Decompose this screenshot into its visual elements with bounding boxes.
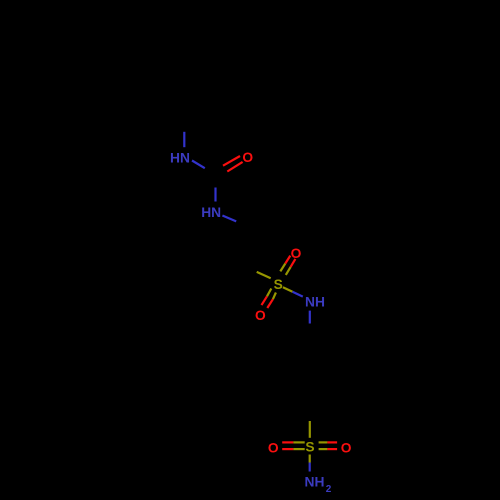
svg-text:NH: NH [305, 475, 325, 490]
svg-text:S: S [305, 440, 314, 455]
svg-text:O: O [341, 440, 352, 455]
svg-text:O: O [268, 440, 279, 455]
svg-text:O: O [255, 308, 266, 323]
svg-text:S: S [274, 277, 283, 292]
svg-text:HN: HN [170, 150, 190, 165]
svg-text:NH: NH [305, 295, 325, 310]
svg-text:HN: HN [201, 205, 221, 220]
svg-text:O: O [291, 246, 302, 261]
svg-text:O: O [242, 150, 253, 165]
svg-text:2: 2 [326, 484, 332, 495]
